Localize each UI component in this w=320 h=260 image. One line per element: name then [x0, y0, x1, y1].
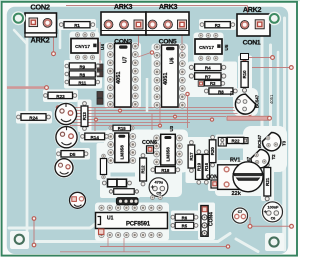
clearance mid resistors	[186, 137, 218, 183]
mounting hole bottom-left	[15, 235, 24, 244]
svg-text:LM358: LM358	[120, 145, 125, 160]
clearance R12 vertical	[138, 152, 150, 187]
resistor R14	[81, 133, 109, 140]
resistor R6	[171, 214, 198, 220]
via wide right end	[268, 116, 272, 120]
svg-text:T3: T3	[282, 140, 287, 146]
resistor R7	[189, 73, 226, 80]
wire right margin band	[283, 18, 286, 250]
resistor R19 vertical	[196, 150, 203, 184]
capacitor C6 100nF	[263, 202, 283, 222]
svg-text:R6: R6	[182, 215, 188, 220]
svg-text:22k: 22k	[232, 191, 242, 197]
wire red bottom-right L	[250, 217, 292, 226]
clearance C3 vertical	[97, 143, 111, 180]
svg-text:R16: R16	[204, 162, 209, 171]
resistor R15	[109, 125, 134, 131]
capacitor C3 vertical	[100, 154, 106, 179]
resistor R5	[171, 222, 198, 228]
svg-text:4051: 4051	[269, 94, 274, 104]
svg-text:U4: U4	[100, 44, 105, 50]
resistor R23	[44, 92, 77, 99]
resistor R2	[200, 22, 235, 28]
clearance R5 R6	[171, 211, 199, 232]
svg-text:R22: R22	[231, 139, 240, 144]
svg-text:R24: R24	[29, 115, 38, 120]
svg-text:U7: U7	[123, 56, 129, 63]
wire wide red trace left	[7, 86, 46, 89]
connector CON2	[25, 3, 57, 45]
mounting hole top-right	[268, 12, 282, 26]
clearance T1 over traces	[234, 93, 258, 115]
wire red drop mid 2	[151, 114, 153, 130]
connector CON3 ARK3	[101, 2, 146, 45]
wire bottom-right diagonal	[236, 239, 258, 252]
svg-text:R11: R11	[78, 80, 86, 85]
wire light between ICs	[146, 78, 149, 112]
connector CON1 ARK2	[237, 5, 270, 46]
via bus mid 1	[119, 109, 122, 112]
svg-text:ARK2: ARK2	[243, 5, 262, 14]
wire red bus 6	[66, 122, 190, 124]
trimmer P1	[55, 103, 76, 124]
wire red PCF drop 2	[123, 238, 125, 252]
clearance mounting pad bottom-left	[10, 231, 29, 249]
clearance D5	[56, 148, 90, 160]
clearance R16 area	[100, 177, 140, 199]
IC U1 PCF8591	[96, 205, 168, 237]
wire red stub U7	[100, 42, 151, 63]
clearance R13 vertical	[78, 100, 92, 133]
svg-text:R18: R18	[161, 168, 170, 173]
connector CON6	[142, 140, 157, 153]
svg-text:CON1: CON1	[243, 39, 261, 46]
svg-text:C6: C6	[271, 217, 276, 221]
via R10 top right	[271, 56, 275, 60]
svg-text:R1: R1	[74, 23, 80, 28]
wire right of R1	[96, 29, 99, 44]
wire red bottom 2	[100, 246, 228, 248]
svg-text:R4: R4	[205, 66, 211, 71]
svg-text:R17: R17	[189, 152, 194, 161]
clearance T2 T3	[243, 126, 287, 172]
svg-text:ARK3: ARK3	[159, 2, 178, 11]
svg-text:U5: U5	[224, 44, 229, 50]
svg-text:R3: R3	[210, 81, 216, 86]
via left wide trace	[45, 86, 49, 90]
svg-text:LM358: LM358	[166, 147, 171, 162]
capacitor C4	[218, 137, 226, 146]
resistor R21 vertical	[264, 163, 271, 201]
resistor R8	[204, 88, 237, 94]
wire red bus 5	[60, 119, 212, 121]
connector CON4	[201, 206, 215, 237]
clearance RV1	[215, 160, 266, 196]
via right of U7	[150, 51, 153, 54]
resistor R16 vertical	[203, 150, 210, 184]
svg-text:100nF: 100nF	[268, 206, 280, 210]
via stack drop	[186, 92, 189, 95]
connector CON7	[206, 174, 221, 188]
clearance U3	[152, 133, 185, 170]
clearance U7	[105, 43, 142, 109]
svg-text:ARK2: ARK2	[31, 36, 50, 45]
wire right-bottom vertical	[282, 150, 285, 250]
svg-text:R20: R20	[210, 147, 215, 156]
resistor R10 vertical	[241, 57, 248, 93]
resistor R4	[189, 64, 226, 71]
svg-text:T2: T2	[271, 154, 276, 160]
svg-text:R19: R19	[196, 162, 201, 171]
IC U6 4051	[154, 44, 185, 108]
via pair above U1	[151, 196, 155, 200]
clearance U5	[194, 33, 224, 63]
svg-text:4051: 4051	[116, 72, 122, 84]
mounting hole bottom-right	[269, 237, 278, 246]
svg-text:BC547: BC547	[255, 94, 260, 108]
wire wide red trace right	[227, 116, 269, 120]
via below CON2	[52, 52, 56, 56]
resistor R24	[17, 114, 51, 121]
wire red bus 4	[64, 116, 226, 118]
red pad PCF8591 pin	[99, 229, 104, 234]
via bus mid 2	[174, 115, 177, 118]
svg-text:CON6: CON6	[142, 140, 157, 146]
clearance T1	[233, 88, 258, 116]
trimmer P2	[56, 127, 77, 148]
trimmer P3	[55, 159, 73, 177]
svg-text:PCF8591: PCF8591	[126, 221, 151, 227]
svg-text:R12: R12	[141, 165, 146, 174]
wire under R1	[59, 30, 62, 48]
svg-text:R8: R8	[79, 72, 85, 77]
wire red bottom-left vertical	[33, 219, 35, 246]
resistor R18	[151, 167, 180, 174]
svg-text:U1: U1	[107, 216, 114, 222]
wire right vertical trace 3	[277, 52, 280, 132]
wire right vertical trace 1	[261, 38, 264, 135]
wire bottom horizontal trace	[9, 216, 106, 228]
svg-text:470u: 470u	[154, 181, 163, 185]
svg-text:R9: R9	[79, 64, 85, 69]
clearance trimmer P4	[69, 191, 87, 209]
wire red stack drop	[187, 93, 189, 128]
clearance middle band lower	[135, 150, 182, 197]
clearance R2	[199, 19, 236, 30]
svg-text:BC547: BC547	[257, 134, 262, 148]
clearance mounting pad bottom-right	[265, 233, 284, 251]
svg-text:T1: T1	[230, 90, 235, 96]
wire red drop mid 3	[159, 108, 161, 126]
capacitor C5 470u	[149, 178, 168, 197]
resistor R20 vertical	[209, 135, 216, 167]
resistor R12 vertical	[140, 154, 147, 186]
clearance U6	[152, 44, 189, 109]
svg-text:U3: U3	[169, 125, 174, 131]
svg-text:R21: R21	[265, 177, 270, 186]
resistor R13 vertical	[81, 102, 88, 131]
wire red drop ARK3b	[181, 30, 183, 53]
capacitor C7	[232, 208, 247, 223]
wire red bus 3	[58, 113, 250, 115]
resistor R1	[59, 22, 94, 28]
svg-text:C7: C7	[238, 210, 243, 214]
transistor T3 BC547	[257, 130, 286, 154]
svg-text:R14: R14	[90, 135, 99, 140]
top edge tint	[0, 0, 300, 1]
via bus left	[56, 106, 59, 109]
IC U3 LM358	[154, 125, 183, 165]
svg-text:R5: R5	[182, 224, 188, 229]
clearance U4	[70, 32, 100, 62]
wire red drop mid 1	[94, 108, 96, 131]
svg-text:R13: R13	[82, 112, 87, 121]
resistor R9	[65, 63, 100, 69]
clearance R24	[16, 111, 52, 124]
transistor T2 BC547	[246, 147, 276, 171]
svg-text:RV1: RV1	[230, 158, 240, 164]
clearance left resistor stack	[64, 60, 102, 89]
via bus mid 3	[95, 118, 98, 121]
clearance trimmer P1	[54, 102, 78, 126]
wire bottom-left vertical trace	[26, 38, 29, 230]
via bottom-left bottom	[32, 243, 36, 247]
wire red from CON2	[53, 34, 55, 52]
clearance R21	[261, 163, 274, 202]
resistor R16b	[109, 189, 138, 195]
via R10 side right	[289, 66, 293, 70]
via bottom-right 2	[290, 224, 294, 228]
clearance C5	[148, 176, 170, 198]
svg-text:D5: D5	[70, 152, 76, 157]
svg-text:R8: R8	[218, 89, 224, 94]
svg-text:CNY17: CNY17	[199, 45, 214, 50]
via bottom-right 1	[248, 224, 252, 228]
IC U2 LM358	[108, 133, 136, 163]
via bus right	[248, 112, 251, 115]
wire right vertical trace 2	[269, 45, 272, 150]
svg-text:R15: R15	[118, 126, 126, 131]
wire red R10 top	[248, 57, 271, 59]
clearance R10	[238, 56, 252, 94]
jumper J1	[102, 179, 131, 187]
wire red PCF drop 1	[107, 238, 109, 247]
clearance trimmer P3	[54, 157, 75, 178]
clearance trimmer P2	[55, 125, 79, 149]
via bottom-left top	[32, 217, 36, 221]
wire red bus 7	[70, 125, 160, 127]
clearance R22	[216, 135, 250, 149]
svg-text:R10: R10	[242, 70, 247, 79]
clearance R23	[43, 90, 78, 103]
via bus mid 4	[210, 118, 213, 121]
wire red bus 2	[62, 110, 244, 112]
clearance CON7	[208, 178, 222, 192]
capacitor C2 pads	[97, 64, 103, 77]
clearance U2	[106, 132, 138, 167]
diode D5	[57, 151, 88, 158]
resistor R3	[198, 81, 225, 87]
wire top-left diagonal trace	[14, 30, 27, 44]
via bus mid 5	[159, 124, 162, 127]
clearance R1	[58, 19, 96, 30]
opto-coupler U5 CNY17	[195, 33, 229, 60]
resistor R8b	[65, 71, 100, 77]
svg-text:ARK3: ARK3	[114, 2, 133, 11]
capacitor C9 pads	[97, 92, 103, 105]
header X1	[116, 198, 138, 205]
resistor R17 vertical	[188, 141, 195, 173]
opto-coupler U4 CNY17	[71, 33, 105, 60]
wire red bus 1	[58, 107, 248, 109]
wire red drop ARK3a	[138, 30, 140, 47]
transistor T1 BC547	[230, 90, 260, 118]
svg-text:C5: C5	[156, 191, 161, 195]
clearance CON6	[144, 145, 157, 158]
wire red bottom 1	[60, 251, 150, 253]
svg-text:CNY17: CNY17	[75, 44, 90, 49]
connector CON5 ARK3	[146, 2, 189, 45]
svg-text:R7: R7	[205, 74, 211, 79]
wire lower horizontal trace	[36, 234, 230, 242]
svg-text:R23: R23	[56, 94, 65, 99]
clearance R14	[80, 131, 108, 143]
clearance resistor stack	[188, 62, 237, 98]
svg-text:R2: R2	[215, 23, 221, 28]
clearance CON4	[198, 203, 215, 241]
svg-text:CON2: CON2	[30, 3, 50, 12]
IC U7 4051	[107, 43, 138, 107]
resistor R11	[65, 79, 100, 85]
svg-text:U6: U6	[170, 57, 176, 64]
via bottom mid	[226, 245, 229, 248]
resistor R22	[223, 137, 248, 143]
svg-text:CON4: CON4	[208, 212, 214, 226]
clearance C7	[231, 207, 249, 225]
trimmer P4	[70, 192, 86, 208]
potentiometer RV1	[218, 158, 263, 198]
wire red drop to CON1	[247, 6, 249, 15]
wire red R10 side	[252, 67, 290, 69]
wire top long red trace	[66, 5, 248, 7]
clearance C6	[261, 200, 284, 223]
capacitor C1	[241, 54, 249, 60]
clearance U1	[95, 203, 169, 242]
clearance middle band	[104, 130, 188, 173]
svg-text:4051: 4051	[163, 73, 169, 85]
mounting hole top-left	[11, 11, 25, 25]
